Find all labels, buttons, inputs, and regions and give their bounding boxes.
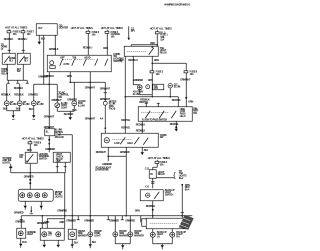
wire U3 lead 2 bbox=[64, 162, 67, 173]
svg-text:LH: LH bbox=[157, 236, 160, 239]
svg-text:RED/BLU: RED/BLU bbox=[83, 46, 93, 49]
wire bus into rear box bbox=[153, 216, 183, 219]
wire fuse F9 down bbox=[27, 144, 32, 152]
illum rail bbox=[34, 83, 58, 85]
svg-text:BLK: BLK bbox=[72, 109, 77, 112]
svg-text:LIGHTS: LIGHTS bbox=[55, 196, 63, 199]
wire relay K2 to connector row bbox=[22, 64, 24, 80]
svg-text:GRN/WHT: GRN/WHT bbox=[44, 115, 55, 118]
connector stub 3 bbox=[26, 80, 29, 83]
svg-text:GRN: GRN bbox=[44, 221, 49, 224]
svg-text:GRN/RED: GRN/RED bbox=[133, 79, 143, 82]
wire S1 to park feed bbox=[89, 72, 91, 83]
svg-text:RED: RED bbox=[150, 42, 155, 45]
svg-text:RED/BLK: RED/BLK bbox=[136, 129, 146, 132]
svg-text:GRN/RED: GRN/RED bbox=[125, 219, 135, 222]
node dot glove feed bbox=[69, 81, 71, 83]
svg-text:RED/BLK: RED/BLK bbox=[1, 93, 11, 96]
svg-text:ILLUM: ILLUM bbox=[37, 103, 44, 106]
wire bus to marker lamp R1 bbox=[109, 216, 119, 232]
svg-text:10A: 10A bbox=[190, 73, 194, 76]
svg-text:GRN: GRN bbox=[67, 75, 72, 78]
lighting switch interior bbox=[50, 56, 108, 68]
dimmer box label bbox=[160, 134, 167, 139]
svg-text:AUTO: AUTO bbox=[63, 63, 69, 66]
svg-text:LIGHTS: LIGHTS bbox=[2, 162, 10, 165]
rear harness connector box bbox=[146, 218, 188, 229]
label cig lighter bbox=[59, 24, 69, 29]
svg-text:ILLUM: ILLUM bbox=[23, 103, 30, 106]
wire cluster ground 1 bbox=[24, 201, 27, 210]
svg-text:GRN: GRN bbox=[148, 79, 153, 82]
svg-text:GRN/WHT: GRN/WHT bbox=[85, 117, 96, 120]
ash tray label bbox=[133, 91, 144, 96]
wire cluster ground 2 bbox=[40, 201, 43, 210]
svg-text:RLY: RLY bbox=[38, 27, 43, 30]
wire meter illum drop bbox=[100, 82, 111, 101]
wire ash lamp link bbox=[140, 90, 153, 102]
wire flash box feed bbox=[172, 97, 182, 107]
ground G3 bbox=[32, 113, 35, 119]
svg-text:RED/YEL: RED/YEL bbox=[170, 123, 180, 126]
illumination controller box U2 bbox=[44, 126, 55, 136]
connector stub bus 1 bbox=[77, 216, 80, 220]
svg-text:ILLUM: ILLUM bbox=[174, 86, 181, 89]
lamp L7 ash tray bbox=[137, 85, 142, 90]
svg-text:HOT AT ALL TIMES: HOT AT ALL TIMES bbox=[22, 136, 44, 140]
wire dimmer to low beam link bbox=[96, 147, 127, 157]
svg-text:RED: RED bbox=[119, 59, 124, 62]
wire connector to dimmer switch bbox=[100, 105, 107, 133]
fuse F10 bbox=[155, 160, 168, 167]
wire fuse F7 to key relay bbox=[18, 33, 28, 53]
svg-text:GRN/RED: GRN/RED bbox=[109, 219, 119, 222]
svg-text:HIGH: HIGH bbox=[127, 142, 133, 145]
svg-text:LIGHT: LIGHT bbox=[27, 233, 34, 236]
wire U1 long drop to illum rail bbox=[38, 35, 48, 84]
relay K2 (key reminder relay) bbox=[17, 53, 30, 64]
park light bus bbox=[21, 215, 192, 217]
svg-text:RED/BLK: RED/BLK bbox=[136, 123, 146, 126]
connector arrow onto bus bbox=[30, 206, 33, 214]
svg-text:GRN/RED: GRN/RED bbox=[57, 209, 67, 212]
cluster label bbox=[55, 191, 63, 199]
wire relay to ash lamp feed bbox=[128, 56, 140, 85]
svg-text:LTS: LTS bbox=[48, 234, 52, 237]
front side marker lamp R2 bbox=[128, 230, 144, 238]
svg-text:RED/BLK: RED/BLK bbox=[14, 87, 24, 90]
svg-text:15A: 15A bbox=[13, 33, 17, 36]
svg-text:RELAY: RELAY bbox=[158, 173, 166, 176]
lamp L4 illum control bbox=[55, 102, 68, 110]
svg-text:RELAY: RELAY bbox=[1, 73, 9, 76]
wire under fuse F2 bbox=[148, 73, 153, 97]
license lamp label bbox=[27, 231, 37, 236]
fuse F2 meter bbox=[150, 63, 164, 76]
svg-text:GRN/RED: GRN/RED bbox=[120, 151, 130, 154]
wire bus to park lamp bbox=[84, 216, 94, 232]
svg-text:ILLUM: ILLUM bbox=[10, 103, 17, 106]
connector stub 2 bbox=[16, 80, 19, 83]
svg-text:GRN/RED: GRN/RED bbox=[28, 93, 38, 96]
backup switch box S5 bbox=[140, 190, 163, 201]
connector stub bus 2 bbox=[107, 216, 110, 220]
wire bus to front side marker L bbox=[66, 216, 76, 230]
fuse F4 bbox=[105, 30, 120, 39]
svg-text:LIGHT: LIGHT bbox=[61, 107, 68, 110]
svg-text:GRN/RED: GRN/RED bbox=[14, 211, 24, 214]
svg-text:10A: 10A bbox=[111, 36, 115, 39]
svg-text:UNIT: UNIT bbox=[56, 160, 62, 163]
connector arrow to parking feed bbox=[58, 134, 73, 216]
svg-text:RED/BLU: RED/BLU bbox=[18, 38, 28, 41]
lamp L8 cig illum bbox=[168, 83, 180, 88]
connector C-7 drop bbox=[127, 26, 134, 40]
fuse F3 tail bbox=[184, 63, 198, 76]
lamp L3 illum bbox=[31, 101, 43, 106]
svg-text:RED: RED bbox=[103, 47, 108, 50]
connector stub 1 bbox=[7, 80, 10, 83]
svg-text:RELAY: RELAY bbox=[160, 52, 168, 55]
lighting switch label bbox=[113, 53, 124, 63]
svg-text:RED/BLK: RED/BLK bbox=[14, 93, 24, 96]
svg-text:TACH): TACH) bbox=[109, 107, 116, 110]
headlight feed bus bbox=[124, 96, 178, 98]
wire trailer feed bbox=[181, 184, 190, 216]
rear connector plug (hatched) bbox=[179, 215, 194, 230]
front side marker lamp L bbox=[68, 229, 87, 239]
label to park sw bbox=[2, 157, 12, 165]
svg-text:BLK: BLK bbox=[29, 108, 34, 111]
wire marker L ground bbox=[71, 239, 79, 248]
wire fuse F10 to connector bbox=[145, 164, 158, 171]
wire park lamp ground bbox=[89, 237, 97, 249]
svg-text:(8P): (8P) bbox=[131, 30, 135, 33]
light check relay box U3 bbox=[53, 152, 70, 163]
svg-text:GRN/RED: GRN/RED bbox=[67, 98, 77, 101]
connector rail left bbox=[9, 164, 12, 173]
wire bus to license lamp bbox=[15, 216, 25, 229]
wire license ground bbox=[19, 238, 27, 248]
svg-text:RLY: RLY bbox=[9, 59, 14, 62]
daytime relay box U5 bbox=[149, 170, 156, 179]
svg-text:10A: 10A bbox=[92, 33, 96, 36]
wire U1 to lighting switch bbox=[49, 35, 59, 55]
relay K1 label bbox=[1, 68, 9, 76]
to tail lights bracket bbox=[173, 170, 187, 180]
svg-text:10A: 10A bbox=[27, 33, 31, 36]
svg-text:10A: 10A bbox=[156, 73, 160, 76]
node label TO DOME LT bbox=[1, 43, 8, 51]
hazard switch S2 bbox=[19, 152, 49, 163]
wire bus to tail lamps bbox=[37, 215, 47, 228]
wire to lamp 1 bbox=[1, 84, 11, 101]
svg-text:15A: 15A bbox=[160, 38, 164, 41]
glove-heater feed bus bbox=[70, 81, 105, 83]
node dot rail hazard bbox=[29, 172, 31, 174]
wire U1 pin to ground bbox=[39, 35, 45, 41]
backup switch label bbox=[165, 189, 175, 197]
node dots on bus bbox=[71, 215, 183, 217]
svg-text:HEAD: HEAD bbox=[84, 56, 90, 59]
wire S1 to illum rail riser bbox=[44, 72, 54, 85]
illumination controller label bbox=[55, 129, 64, 139]
svg-text:10A: 10A bbox=[160, 163, 164, 166]
svg-text:GRN: GRN bbox=[59, 221, 64, 224]
wire relay output bbox=[152, 56, 159, 63]
lamp L2 A/T illum bbox=[17, 101, 29, 106]
svg-text:ILLUM: ILLUM bbox=[133, 93, 140, 96]
wire marker lamps shared ground bbox=[115, 237, 130, 250]
svg-text:94 WIRING DIAGRAMS 8-1: 94 WIRING DIAGRAMS 8-1 bbox=[164, 3, 191, 6]
wire U2 output with splice and arrow bbox=[45, 136, 55, 153]
wire lamp L8 stub bbox=[169, 88, 171, 97]
connector row bus bbox=[7, 79, 27, 81]
svg-text:HOT AT ALL TIMES: HOT AT ALL TIMES bbox=[101, 26, 123, 30]
front park lamp bbox=[88, 230, 102, 238]
svg-text:GRN: GRN bbox=[135, 209, 140, 212]
wire lamp grounds join bbox=[3, 106, 21, 115]
wire hazard to ground rail bbox=[29, 163, 31, 173]
license lamp box bbox=[17, 228, 26, 238]
front side marker lamp R1 bbox=[113, 230, 129, 238]
connector label box C-16 bbox=[153, 84, 164, 90]
rear connector bracket bbox=[142, 219, 147, 227]
svg-text:GRN/WHT: GRN/WHT bbox=[100, 87, 111, 90]
svg-text:OFF: OFF bbox=[60, 56, 65, 59]
wire relay coil return long drop bbox=[119, 56, 131, 133]
svg-text:MARKER: MARKER bbox=[78, 235, 88, 238]
dimmer switch box S4 bbox=[101, 133, 158, 147]
svg-text:RED/YEL: RED/YEL bbox=[121, 126, 131, 129]
svg-text:HOT AT ALL TIMES: HOT AT ALL TIMES bbox=[150, 26, 172, 30]
wire rail to lamp L3 bbox=[28, 84, 38, 101]
svg-text:GRN/RED: GRN/RED bbox=[45, 148, 55, 151]
wire rail riser down to illum controller bbox=[44, 84, 55, 129]
svg-text:BLK: BLK bbox=[16, 107, 21, 110]
svg-text:SWITCH: SWITCH bbox=[39, 158, 48, 161]
svg-text:LIGHT: LIGHT bbox=[94, 235, 101, 238]
svg-text:RED/BLK: RED/BLK bbox=[4, 38, 14, 41]
svg-text:SWITCH: SWITCH bbox=[165, 194, 174, 197]
svg-text:GRN/BLK: GRN/BLK bbox=[44, 75, 54, 78]
wire U3 lead 1 bbox=[56, 162, 59, 173]
svg-text:GRN: GRN bbox=[27, 149, 32, 152]
connector stub flash 2 bbox=[157, 103, 160, 107]
ground G1 bbox=[12, 114, 15, 119]
svg-text:GRN/BLK: GRN/BLK bbox=[49, 48, 59, 51]
wire relay K1 to connector row bbox=[6, 64, 8, 80]
lamp L5 glove box bbox=[72, 100, 86, 108]
svg-text:HI-LO: HI-LO bbox=[180, 115, 186, 118]
tail light relay box U4 bbox=[124, 46, 158, 56]
svg-text:LIGHTER: LIGHTER bbox=[59, 27, 69, 30]
svg-text:HOT AT ALL TIMES: HOT AT ALL TIMES bbox=[71, 26, 93, 30]
node dot rail bbox=[48, 83, 50, 85]
connector C-13 bbox=[103, 100, 116, 110]
wire dimmer park drop bbox=[120, 147, 130, 216]
svg-text:MARKER: MARKER bbox=[134, 235, 144, 238]
tail lamp box bbox=[40, 228, 64, 240]
relay K2 label bbox=[17, 68, 22, 73]
svg-text:BLK: BLK bbox=[144, 149, 149, 152]
svg-text:ROLLER: ROLLER bbox=[55, 136, 64, 139]
svg-text:HOT AT ALL TIMES: HOT AT ALL TIMES bbox=[5, 25, 27, 29]
flash box label bbox=[193, 107, 198, 115]
svg-text:GRN/RED: GRN/RED bbox=[24, 175, 34, 178]
wire rear box to backup lamp R bbox=[171, 229, 173, 233]
backup lamp L bbox=[150, 231, 167, 239]
fuse F9 bbox=[28, 140, 42, 147]
wire bus drop into bracket bbox=[135, 209, 141, 222]
svg-text:BLK: BLK bbox=[41, 37, 46, 40]
cluster box illumination lamps bbox=[18, 189, 53, 201]
backup lamp R bbox=[170, 231, 187, 239]
svg-text:ON: ON bbox=[19, 156, 23, 159]
wire long park feed drop bbox=[85, 81, 96, 215]
connector stub bus 3 bbox=[121, 216, 124, 220]
svg-text:RED/BLU: RED/BLU bbox=[128, 59, 138, 62]
svg-text:RED/WHT: RED/WHT bbox=[96, 151, 107, 154]
svg-text:RH: RH bbox=[176, 236, 180, 239]
svg-text:RED/YEL: RED/YEL bbox=[121, 119, 131, 122]
lamp L1 A/T illum bbox=[4, 101, 16, 106]
wire glove lamp to ground bbox=[64, 106, 77, 117]
wire fuse F4 to lighting switch bbox=[103, 34, 108, 56]
svg-text:BLK: BLK bbox=[74, 241, 79, 244]
wire lamp L3 to ground bbox=[29, 106, 34, 114]
svg-text:GRN: GRN bbox=[188, 100, 193, 103]
svg-text:GRN: GRN bbox=[154, 59, 159, 62]
svg-text:RLY: RLY bbox=[24, 59, 29, 62]
wire high beam fuse drop bbox=[180, 73, 193, 107]
tail mini bus bbox=[44, 215, 65, 228]
relay K1 (dome light relay) bbox=[2, 53, 16, 64]
wire fuse F6 to lighting switch bbox=[83, 34, 93, 56]
wire dimmer ground bbox=[142, 147, 148, 152]
lamp meter illum bbox=[146, 85, 150, 89]
svg-text:BLK: BLK bbox=[92, 241, 97, 244]
fuse F6 bbox=[86, 30, 100, 37]
svg-text:BLK: BLK bbox=[22, 241, 27, 244]
svg-text:GRN/WHT: GRN/WHT bbox=[85, 86, 96, 89]
svg-text:BLK: BLK bbox=[3, 107, 8, 110]
tail relay label bbox=[160, 47, 168, 55]
note block meter feed bbox=[58, 91, 69, 99]
svg-text:GRN/RED: GRN/RED bbox=[15, 220, 25, 223]
relay U5 label bbox=[158, 171, 166, 176]
svg-text:ILLUM: ILLUM bbox=[78, 105, 85, 108]
ground G2 bbox=[38, 41, 41, 45]
svg-text:GRN/WHT: GRN/WHT bbox=[180, 78, 191, 81]
svg-text:LTR: LTR bbox=[154, 87, 158, 90]
lighting switch box S1 bbox=[47, 55, 111, 72]
svg-text:TAIL: TAIL bbox=[72, 56, 77, 59]
wire to glove lamp bbox=[67, 82, 77, 101]
wire tail lamps grounds bbox=[43, 240, 60, 247]
tail feed split bus bbox=[151, 62, 186, 64]
fuse F1 bbox=[155, 30, 168, 41]
wire flash box ground leg bbox=[170, 121, 180, 128]
wire flash to dimmer bbox=[136, 121, 146, 133]
wire rail feed down to park bus bbox=[64, 173, 66, 216]
wire S1 to glove box feed bbox=[67, 72, 72, 83]
wire rail to dimmer lamp L4 bbox=[51, 84, 62, 103]
svg-text:GRN/RED: GRN/RED bbox=[84, 219, 94, 222]
fuse F7 bbox=[21, 29, 35, 36]
svg-text:FLASH TO PASS SWITCH: FLASH TO PASS SWITCH bbox=[142, 118, 168, 121]
wire bus to marker lamp R2 bbox=[125, 216, 135, 232]
connector stub flash 1 bbox=[145, 103, 148, 107]
wire backup lamps shared ground bbox=[153, 237, 173, 249]
svg-text:(LOW BEAM): (LOW BEAM) bbox=[95, 169, 108, 172]
svg-text:GRN/WHT: GRN/WHT bbox=[44, 126, 55, 129]
wire to lamp 2 bbox=[14, 84, 24, 101]
wire rear box to backup lamp L bbox=[152, 229, 154, 233]
svg-text:15A: 15A bbox=[34, 144, 38, 147]
wire fuse F1 to tail relay bbox=[150, 34, 157, 46]
wire fuse F5 to dome relay bbox=[4, 33, 14, 53]
wire lamp L4 to shared ground bbox=[57, 108, 70, 112]
cigar lighter relay box U1 bbox=[36, 24, 57, 36]
fuse F5 bbox=[7, 29, 21, 36]
wire to headlights stub bbox=[95, 156, 112, 171]
svg-text:HOT AT ALL TIMES: HOT AT ALL TIMES bbox=[148, 156, 170, 160]
wire tail relay coil feed bbox=[131, 44, 158, 46]
flash to pass switch box S3 bbox=[138, 107, 192, 122]
svg-text:GRN/RED: GRN/RED bbox=[66, 219, 76, 222]
wire backup switch to bus bbox=[146, 201, 156, 216]
svg-text:BLK/RED: BLK/RED bbox=[64, 113, 74, 116]
wire U5 to tail lights feed bbox=[156, 177, 174, 179]
ground G6 bbox=[175, 128, 178, 132]
ground G4 bbox=[69, 116, 72, 120]
ground rail bbox=[11, 172, 66, 174]
wire U5 output with inline connector bbox=[145, 178, 154, 188]
svg-text:RED/BLK: RED/BLK bbox=[146, 205, 156, 208]
ground G7 bbox=[141, 151, 144, 155]
svg-text:RED/YEL: RED/YEL bbox=[172, 99, 182, 102]
wire rail to cluster with splices bbox=[24, 173, 34, 190]
